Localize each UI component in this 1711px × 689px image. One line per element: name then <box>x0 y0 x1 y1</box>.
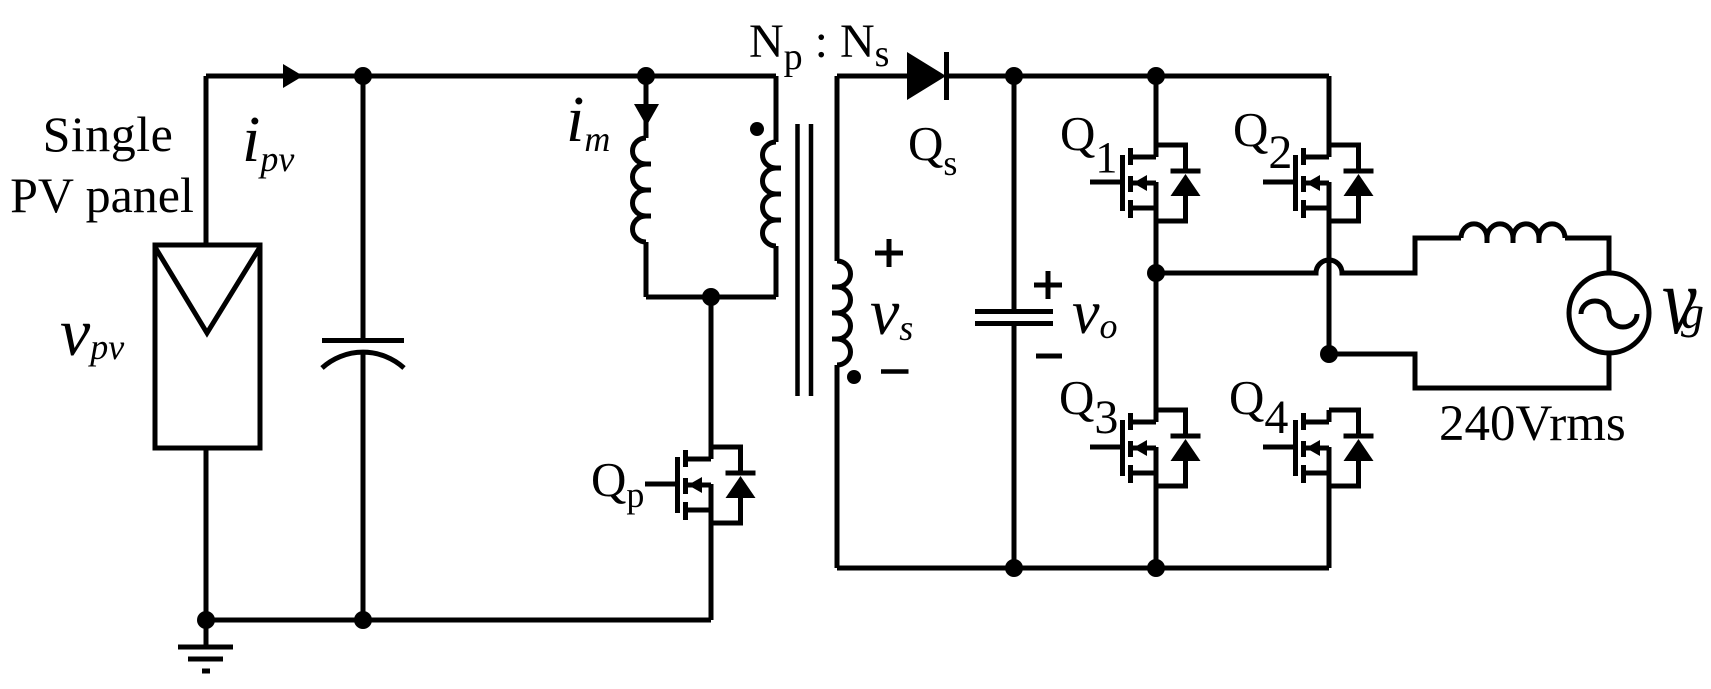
source vg sine <box>1581 301 1637 327</box>
svg-text:vs: vs <box>870 276 913 349</box>
wire node A to filter with hop <box>1156 238 1461 273</box>
svg-text:Q1: Q1 <box>1060 106 1117 182</box>
junction node B <box>1320 345 1338 363</box>
inductor Lf <box>1461 224 1565 238</box>
inductor Lf nubs <box>1487 238 1539 243</box>
capacitor Cin bottom lead <box>361 354 366 620</box>
wire magnetizing branch top <box>644 76 649 138</box>
wire primary bottom link <box>646 295 776 300</box>
wire Qp source lead <box>709 523 714 620</box>
wire left leg Q3 source <box>1154 447 1159 568</box>
wire PV panel bottom lead <box>204 449 209 620</box>
wire bottom rail secondary side <box>837 566 1329 571</box>
wire right leg Q2 drain <box>1327 76 1332 157</box>
svg-text:vpv: vpv <box>60 294 124 370</box>
transistor Q1 <box>1090 145 1201 221</box>
inductor Lm magnetizing coil <box>633 138 647 242</box>
svg-text:im: im <box>566 83 610 159</box>
svg-text:240Vrms: 240Vrms <box>1439 396 1626 452</box>
junction top rail bridge <box>1147 67 1165 85</box>
transformer primary nubs <box>776 168 781 220</box>
transistor Q2 <box>1263 145 1374 221</box>
wire top rail primary side <box>206 74 776 79</box>
transformer secondary nubs <box>832 287 837 339</box>
junction cap in bottom <box>354 611 372 629</box>
junction left leg bottom <box>1147 559 1165 577</box>
wire diode to top rail <box>946 74 1329 79</box>
wire Qp drain lead <box>709 297 714 459</box>
capacitor Co bottom lead <box>1012 326 1017 568</box>
transistor Q4 <box>1263 410 1374 486</box>
svg-text:Q3: Q3 <box>1059 370 1118 444</box>
transistor Qp <box>645 447 756 523</box>
svg-text:Single: Single <box>43 106 174 162</box>
wire right leg mid <box>1327 182 1332 354</box>
junction diode out <box>1005 67 1023 85</box>
polarity dot primary <box>750 122 764 136</box>
PV panel body <box>155 245 260 448</box>
source vg circle <box>1569 273 1649 353</box>
diode Ds triangle <box>907 52 946 100</box>
wire left leg Q1 drain <box>1154 76 1159 157</box>
transistor Q3 <box>1090 410 1201 486</box>
wire secondary top lead <box>835 76 840 261</box>
wire secondary bottom lead <box>835 365 840 568</box>
capacitor Cin plates <box>322 341 404 369</box>
minus vs <box>881 369 909 374</box>
svg-text:vo: vo <box>1072 279 1118 347</box>
transformer secondary winding <box>837 261 851 365</box>
diode Ds cathode bar <box>944 52 949 100</box>
svg-text:Q2: Q2 <box>1233 102 1292 179</box>
svg-text:g: g <box>1681 287 1704 338</box>
wire PV panel top lead <box>204 76 209 243</box>
wire secondary to diode <box>837 74 907 79</box>
capacitor Co top lead <box>1012 76 1017 309</box>
ground <box>178 620 233 671</box>
polarity dot secondary <box>847 370 861 384</box>
PV panel diode chevron <box>155 247 260 333</box>
wire filter to source top <box>1565 238 1609 273</box>
inductor Lm nubs <box>646 164 651 216</box>
wire transformer primary top lead <box>774 76 779 142</box>
junction primary bottom <box>702 288 720 306</box>
svg-text:PV panel: PV panel <box>10 167 194 223</box>
wire right leg Q4 source <box>1327 447 1332 568</box>
junction top magnetizing <box>637 67 655 85</box>
arrow i_m <box>634 104 659 126</box>
capacitor Co plates <box>975 312 1053 324</box>
junction top cap in <box>354 67 372 85</box>
wire source bottom loop <box>1329 353 1609 388</box>
wire left leg mid <box>1154 182 1159 422</box>
plus vs <box>875 239 903 267</box>
junction node A <box>1147 264 1165 282</box>
transformer core <box>798 124 812 396</box>
junction ground <box>197 611 215 629</box>
minus vo <box>1036 354 1062 359</box>
svg-text:ipv: ipv <box>242 103 294 179</box>
svg-text:Qs: Qs <box>908 116 957 183</box>
wire bottom rail primary side <box>206 618 711 623</box>
arrow i_pv on top wire <box>283 64 303 88</box>
svg-text:Np : Ns: Np : Ns <box>749 15 889 78</box>
svg-text:Qp: Qp <box>591 452 644 515</box>
svg-text:Q4: Q4 <box>1229 370 1288 444</box>
capacitor Cin top lead <box>361 76 366 338</box>
wire magnetizing branch bottom <box>644 242 649 297</box>
plus vo <box>1034 271 1062 299</box>
transformer primary winding <box>763 142 777 246</box>
wire transformer primary bottom lead <box>774 246 779 297</box>
junction cap out bottom <box>1005 559 1023 577</box>
